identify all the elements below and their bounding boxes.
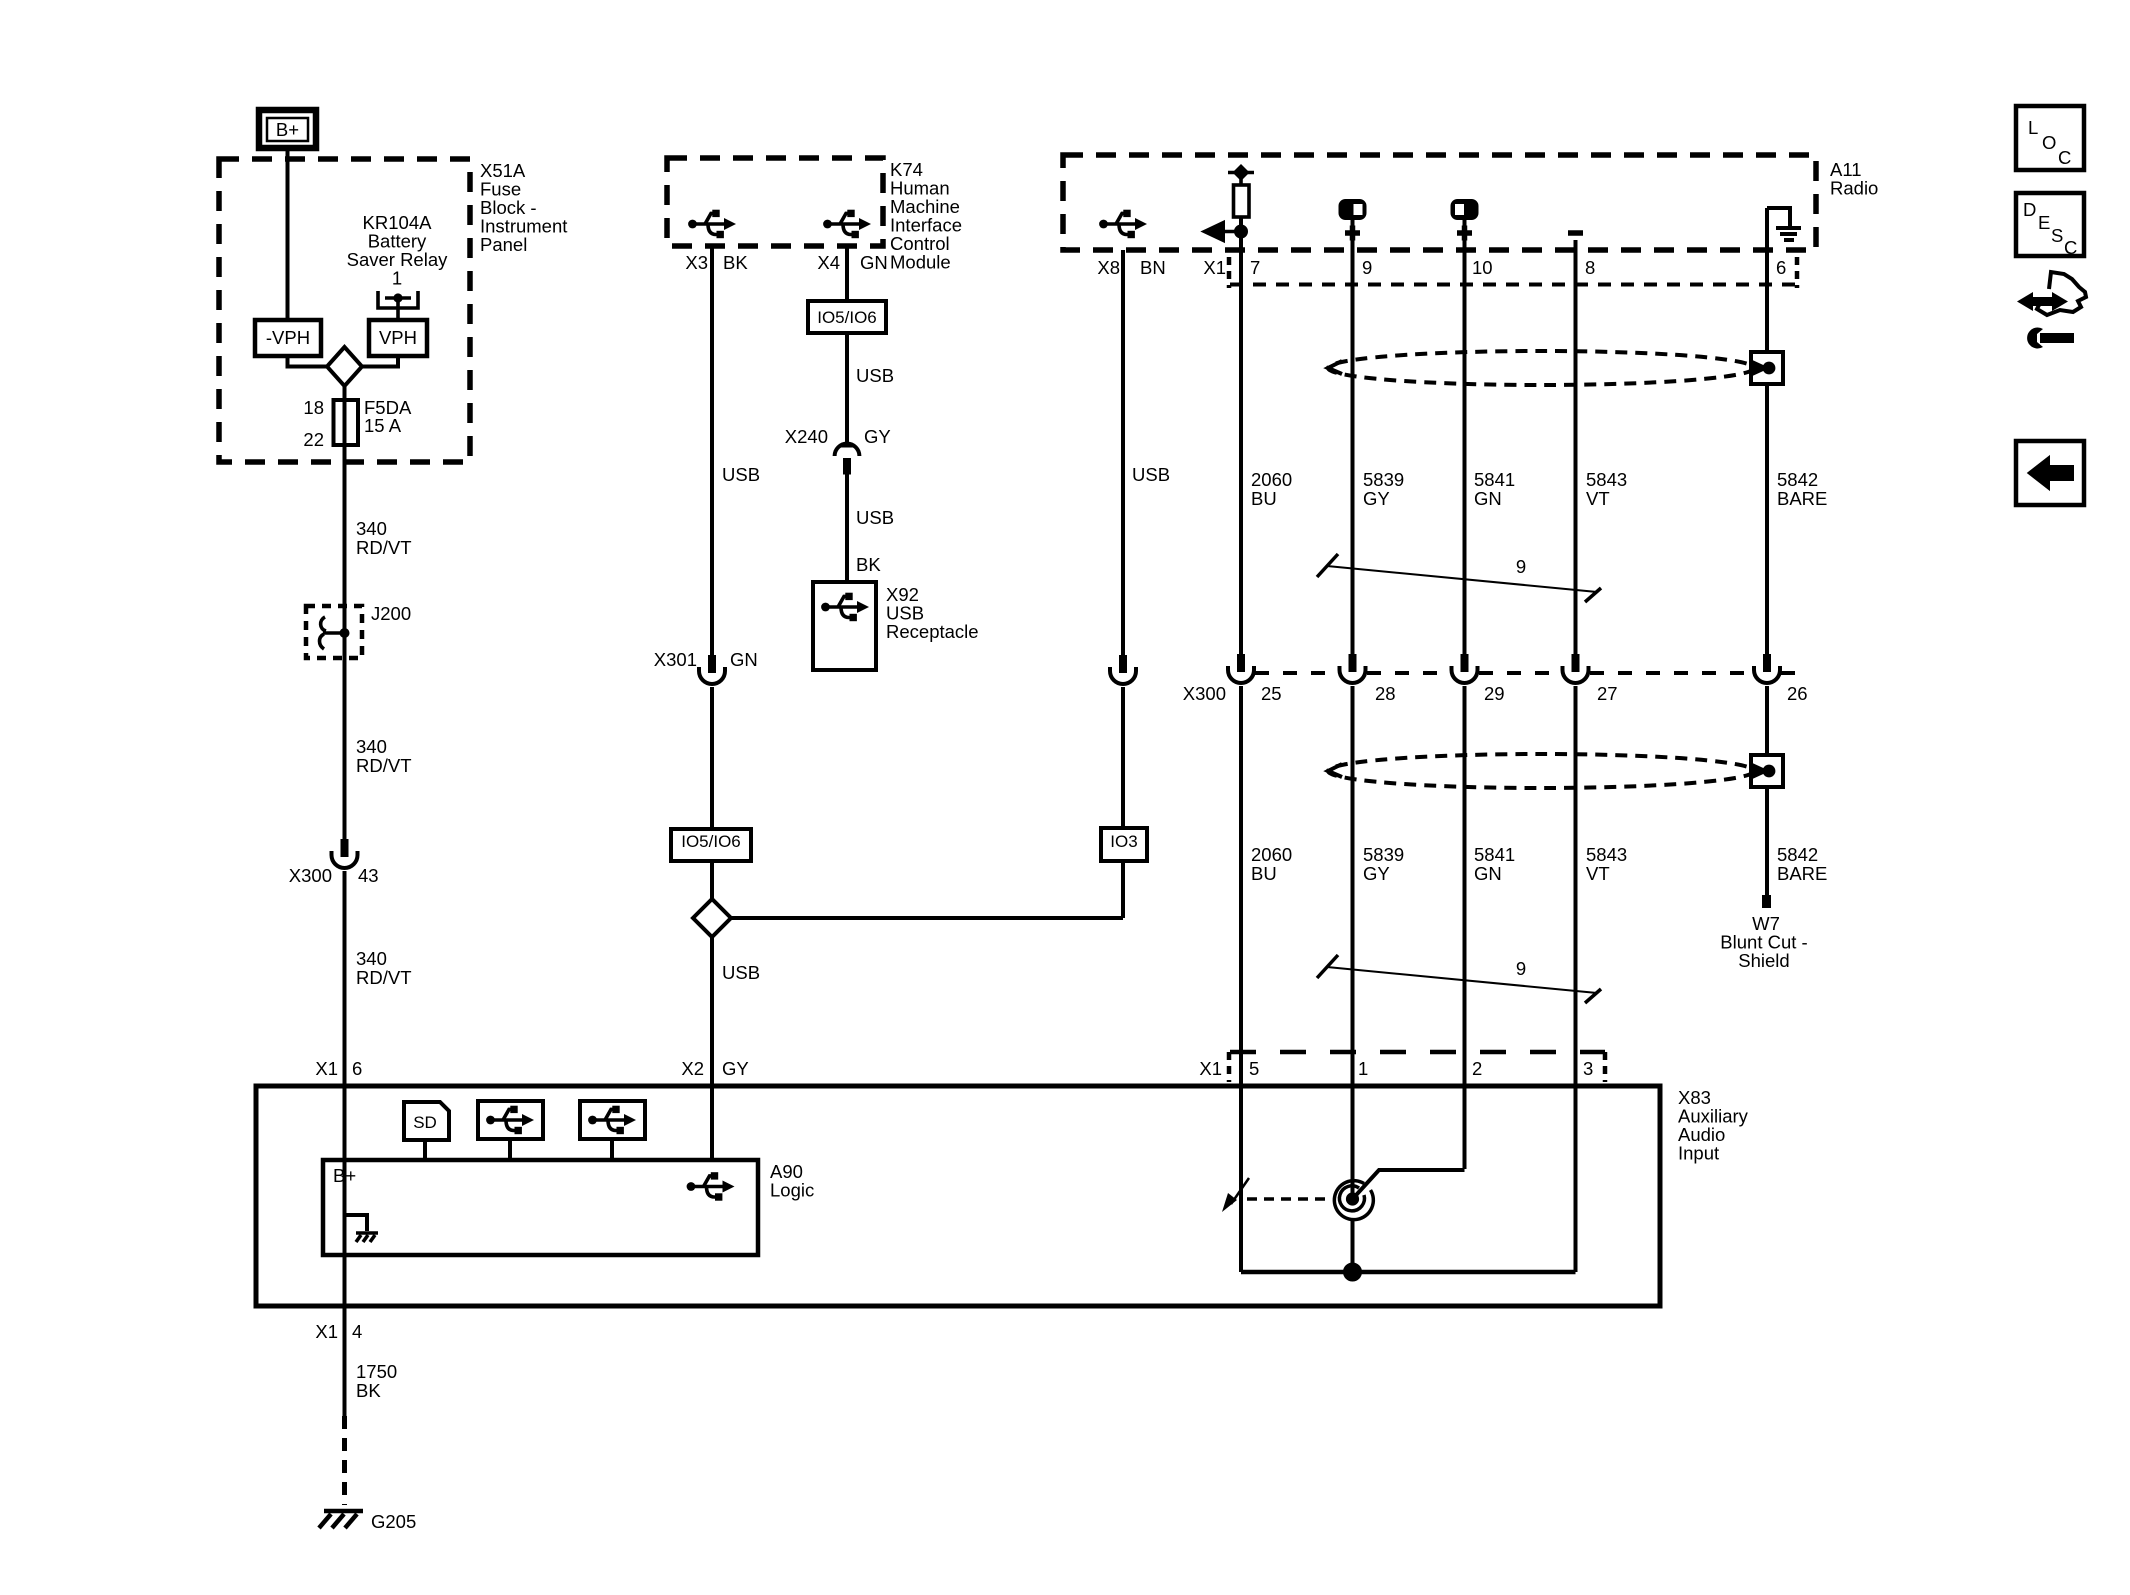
svg-text:2060: 2060 — [1251, 844, 1292, 865]
svg-text:26: 26 — [1787, 683, 1808, 704]
svg-text:6: 6 — [1776, 257, 1786, 278]
svg-text:D: D — [2023, 199, 2036, 220]
svg-text:X1: X1 — [315, 1058, 338, 1079]
svg-text:340: 340 — [356, 948, 387, 969]
svg-text:X3: X3 — [685, 252, 708, 273]
svg-text:1: 1 — [392, 268, 402, 289]
svg-text:9: 9 — [1516, 556, 1526, 577]
svg-text:5843: 5843 — [1586, 469, 1627, 490]
svg-text:3: 3 — [1583, 1058, 1593, 1079]
svg-text:340: 340 — [356, 736, 387, 757]
svg-text:VT: VT — [1586, 488, 1610, 509]
svg-text:Receptacle: Receptacle — [886, 621, 979, 642]
svg-text:RD/VT: RD/VT — [356, 537, 412, 558]
svg-text:GY: GY — [1363, 488, 1390, 509]
svg-text:5841: 5841 — [1474, 469, 1515, 490]
svg-text:22: 22 — [303, 429, 324, 450]
svg-text:1: 1 — [1358, 1058, 1368, 1079]
svg-text:VPH: VPH — [379, 327, 417, 348]
svg-text:43: 43 — [358, 865, 379, 886]
svg-text:BN: BN — [1140, 257, 1166, 278]
svg-text:X300: X300 — [289, 865, 332, 886]
svg-text:5842: 5842 — [1777, 469, 1818, 490]
svg-text:29: 29 — [1484, 683, 1505, 704]
svg-text:X1: X1 — [315, 1321, 338, 1342]
svg-text:BK: BK — [356, 1380, 381, 1401]
svg-text:IO5/IO6: IO5/IO6 — [817, 308, 877, 327]
svg-text:USB: USB — [1132, 464, 1170, 485]
svg-text:L: L — [2028, 117, 2038, 138]
svg-text:USB: USB — [722, 962, 760, 983]
svg-text:E: E — [2038, 212, 2050, 233]
svg-text:Panel: Panel — [480, 234, 527, 255]
svg-text:X1: X1 — [1199, 1058, 1222, 1079]
svg-text:USB: USB — [722, 464, 760, 485]
svg-text:X2: X2 — [681, 1058, 704, 1079]
svg-text:5839: 5839 — [1363, 469, 1404, 490]
svg-text:GY: GY — [722, 1058, 749, 1079]
svg-text:O: O — [2042, 132, 2056, 153]
svg-text:5841: 5841 — [1474, 844, 1515, 865]
svg-text:5843: 5843 — [1586, 844, 1627, 865]
svg-text:Input: Input — [1678, 1143, 1719, 1164]
svg-text:10: 10 — [1472, 257, 1493, 278]
svg-text:Radio: Radio — [1830, 178, 1878, 199]
svg-text:RD/VT: RD/VT — [356, 755, 412, 776]
svg-text:15 A: 15 A — [364, 415, 402, 436]
svg-text:5839: 5839 — [1363, 844, 1404, 865]
svg-text:GY: GY — [1363, 863, 1390, 884]
svg-text:USB: USB — [856, 507, 894, 528]
svg-text:GN: GN — [860, 252, 888, 273]
svg-text:BK: BK — [856, 554, 881, 575]
svg-text:IO5/IO6: IO5/IO6 — [681, 832, 741, 851]
svg-text:X4: X4 — [817, 252, 840, 273]
svg-text:IO3: IO3 — [1110, 832, 1137, 851]
svg-text:BU: BU — [1251, 488, 1277, 509]
svg-text:5842: 5842 — [1777, 844, 1818, 865]
svg-text:9: 9 — [1362, 257, 1372, 278]
svg-text:S: S — [2051, 225, 2063, 246]
svg-text:X1: X1 — [1203, 257, 1226, 278]
svg-text:1750: 1750 — [356, 1361, 397, 1382]
svg-text:BU: BU — [1251, 863, 1277, 884]
svg-text:G205: G205 — [371, 1511, 416, 1532]
svg-text:GY: GY — [864, 426, 891, 447]
svg-text:B+: B+ — [333, 1165, 356, 1186]
svg-text:Shield: Shield — [1738, 950, 1789, 971]
svg-text:18: 18 — [303, 397, 324, 418]
svg-text:2060: 2060 — [1251, 469, 1292, 490]
svg-text:7: 7 — [1250, 257, 1260, 278]
svg-text:25: 25 — [1261, 683, 1282, 704]
svg-text:B+: B+ — [276, 119, 299, 140]
svg-text:8: 8 — [1585, 257, 1595, 278]
svg-text:GN: GN — [1474, 488, 1502, 509]
svg-text:X300: X300 — [1183, 683, 1226, 704]
svg-text:2: 2 — [1472, 1058, 1482, 1079]
svg-text:BK: BK — [723, 252, 748, 273]
svg-text:-VPH: -VPH — [266, 327, 310, 348]
svg-text:RD/VT: RD/VT — [356, 967, 412, 988]
svg-text:6: 6 — [352, 1058, 362, 1079]
svg-text:GN: GN — [1474, 863, 1502, 884]
svg-text:340: 340 — [356, 518, 387, 539]
svg-text:VT: VT — [1586, 863, 1610, 884]
svg-text:BARE: BARE — [1777, 488, 1827, 509]
svg-text:USB: USB — [856, 365, 894, 386]
svg-text:Logic: Logic — [770, 1180, 814, 1201]
svg-text:J200: J200 — [371, 603, 411, 624]
svg-text:X301: X301 — [654, 649, 697, 670]
svg-text:C: C — [2064, 237, 2077, 258]
svg-text:9: 9 — [1516, 958, 1526, 979]
svg-text:SD: SD — [413, 1113, 437, 1132]
svg-text:GN: GN — [730, 649, 758, 670]
svg-text:C: C — [2058, 147, 2071, 168]
svg-text:4: 4 — [352, 1321, 362, 1342]
svg-text:BARE: BARE — [1777, 863, 1827, 884]
svg-text:5: 5 — [1249, 1058, 1259, 1079]
svg-text:X8: X8 — [1097, 257, 1120, 278]
svg-text:28: 28 — [1375, 683, 1396, 704]
svg-text:27: 27 — [1597, 683, 1618, 704]
svg-text:X240: X240 — [785, 426, 828, 447]
svg-text:Module: Module — [890, 252, 951, 273]
